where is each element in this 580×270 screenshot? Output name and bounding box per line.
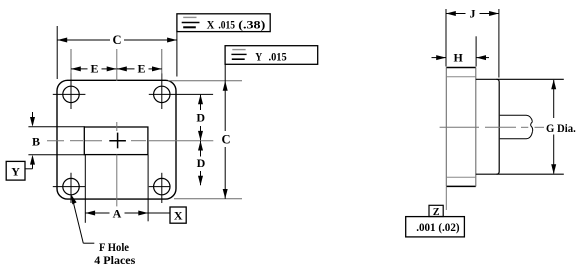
- datum Y box: [6, 161, 25, 180]
- svg-text:.015: .015: [269, 49, 287, 63]
- dimension E left: line and arrows: [71, 68, 117, 70]
- dimension J extension lines: [446, 9, 499, 78]
- hole top-right: [154, 86, 170, 102]
- flange bottom edge extension (right): [174, 198, 242, 200]
- side view corner-radius tangent lines: [446, 76, 476, 78]
- dimension G line and arrows: [553, 80, 555, 174]
- datum X box: [170, 207, 186, 223]
- svg-text:.001 (.02): .001 (.02): [416, 220, 459, 234]
- dimension B extension lines (slot top/bottom extended left): [28, 127, 85, 155]
- dimension C (top) extension line left: [56, 26, 58, 79]
- boss bottom edge + G extension: [476, 173, 564, 175]
- hole top-left crosshair: [53, 73, 86, 109]
- feature control frame Y .015: [225, 46, 318, 65]
- dimension A extension lines (slot sides extended down): [85, 155, 148, 223]
- dimension H arrows (outside): [432, 57, 447, 59]
- hole top-left: [63, 86, 79, 102]
- dimension C (top) line and arrows: [57, 39, 176, 41]
- svg-text:Y: Y: [11, 165, 20, 179]
- svg-text:C: C: [112, 33, 121, 47]
- waveguide tube (broken end): [500, 115, 533, 121]
- slot center cross mark: [109, 133, 126, 149]
- side view centerline: [440, 126, 544, 128]
- svg-text:G Dia.: G Dia.: [546, 121, 576, 135]
- svg-text:D: D: [196, 111, 205, 125]
- svg-text:E: E: [90, 62, 98, 76]
- dimension D lower: line and arrows: [200, 141, 202, 185]
- waveguide slot aperture: [84, 127, 148, 155]
- feature control frame X .015 (.38): [177, 14, 270, 32]
- hole bottom-left: [63, 178, 79, 194]
- svg-text:4 Places: 4 Places: [94, 253, 135, 267]
- flange outline (front view): [57, 80, 176, 199]
- svg-text:(.38): (.38): [238, 17, 265, 31]
- dimension H extension line (plate right edge up): [475, 36, 477, 66]
- svg-text:Y: Y: [255, 49, 262, 63]
- hole top-right crosshair (right arm extends to D dim): [149, 73, 213, 109]
- E extension lines above top holes: [71, 49, 162, 80]
- svg-text:E: E: [137, 62, 145, 76]
- boss face: [497, 79, 500, 174]
- dimension B arrows: [32, 112, 34, 119]
- hole bottom-left crosshair: [53, 173, 86, 203]
- svg-text:.015: .015: [218, 17, 235, 31]
- datum Z box: [429, 205, 443, 216]
- datum Y connector: [25, 168, 33, 170]
- FCF X symbol (three bars): [183, 16, 196, 18]
- dimension E right: line and arrows: [117, 68, 162, 70]
- boss top edge + G extension: [476, 78, 564, 80]
- side view plate outline: [446, 68, 476, 187]
- svg-text:X: X: [207, 17, 215, 31]
- svg-text:B: B: [32, 134, 40, 148]
- dimension C (right side) line from Y frame: [224, 64, 226, 199]
- svg-text:A: A: [113, 206, 122, 220]
- svg-text:J: J: [470, 7, 476, 21]
- dimension A line and arrows: [85, 212, 170, 214]
- svg-text:C: C: [221, 132, 230, 146]
- dimension J line and arrows: [446, 13, 499, 15]
- svg-text:X: X: [174, 209, 183, 223]
- FCF X leader / C right extension: [176, 32, 178, 77]
- hole bottom-right crosshair: [149, 173, 171, 203]
- vertical centerline of flange: [116, 49, 118, 206]
- datum Z leader: [445, 187, 447, 210]
- tolerance frame .001 (.02): [406, 217, 465, 237]
- tube S-break squiggle: [531, 122, 533, 132]
- flange top edge extension (right): [168, 80, 242, 82]
- svg-text:D: D: [197, 156, 206, 170]
- FCF Y symbol (three bars): [232, 49, 245, 51]
- hole bottom-right: [154, 178, 170, 194]
- horizontal centerline of flange: [47, 140, 213, 142]
- svg-text:H: H: [454, 51, 464, 65]
- dimension D upper: line and arrows: [200, 95, 202, 141]
- F hole leader: [72, 197, 83, 244]
